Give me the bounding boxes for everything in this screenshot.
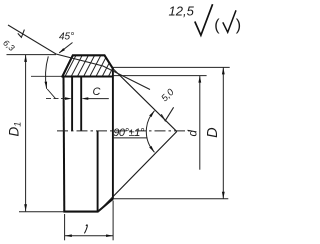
lower cone edge xyxy=(98,132,177,212)
inner vertical A (chamfer edge above axis) xyxy=(71,77,73,131)
svg-text:(: ( xyxy=(214,17,220,34)
dimension l: right arrowhead xyxy=(106,234,113,237)
inner vertical B (below axis) xyxy=(97,131,99,212)
body bottom edge xyxy=(63,211,98,213)
svg-text:6,3: 6,3 xyxy=(1,38,17,53)
svg-text:C: C xyxy=(93,86,101,98)
45 deg leader line xyxy=(59,43,72,53)
dimension D: bottom extension line xyxy=(113,198,228,200)
svg-text:90°±1°: 90°±1° xyxy=(113,127,145,139)
dimension D1: dimension line xyxy=(25,55,27,212)
angle label underline xyxy=(113,137,148,139)
dimension C: left arrow tail dashes xyxy=(46,98,65,100)
dimension C: right arrowhead xyxy=(81,97,88,100)
dimension d: label xyxy=(188,130,200,137)
svg-text:45°: 45° xyxy=(59,32,74,43)
hatching of head section xyxy=(58,54,126,78)
dimension D: top arrowhead xyxy=(222,67,225,74)
45 deg leader arrowhead xyxy=(59,48,65,53)
dimension l: left arrowhead xyxy=(65,234,72,237)
roughness tick on cone edge xyxy=(161,107,173,121)
body left edge xyxy=(63,77,66,212)
dimension d: extension line xyxy=(113,75,207,77)
general roughness check symbol xyxy=(195,4,213,35)
head base extension line (left, for 45 deg arc) xyxy=(31,75,62,77)
axis centerline (dash-dot) xyxy=(57,130,191,132)
apex arc lower arrowhead xyxy=(149,146,154,152)
chamfer extension diagonal (45 deg line) xyxy=(8,25,150,90)
dimension D1: bottom extension line xyxy=(19,211,63,213)
apex arc upper arrowhead xyxy=(149,111,154,117)
dimension D1: top arrowhead xyxy=(24,55,27,62)
apex angle arc (90 deg) xyxy=(146,111,154,153)
svg-text:D: D xyxy=(205,127,221,137)
svg-text:12,5: 12,5 xyxy=(169,4,195,19)
bracketed check: small check xyxy=(223,10,236,32)
dimension D1: label xyxy=(7,122,23,137)
dimension D: top extension line xyxy=(113,66,230,68)
dimension C: right tail xyxy=(88,98,109,100)
dimension l: label xyxy=(84,225,87,234)
dimension l: right extension line xyxy=(112,201,114,241)
bottom-right bevel (thick corner chamfer) xyxy=(98,199,113,211)
svg-text:d: d xyxy=(188,130,200,137)
dimension D1: bottom arrowhead xyxy=(24,204,27,211)
dimension C: left arrowhead xyxy=(65,97,72,100)
45 deg arc arrowhead xyxy=(45,82,48,89)
leader bend to C dashes xyxy=(47,89,55,99)
inner vertical A2 (hole edge above axis) xyxy=(80,77,82,131)
45 deg angle arc xyxy=(46,56,49,88)
dimension d: dimension line xyxy=(199,76,201,170)
roughness tick on chamfer line xyxy=(18,30,25,38)
svg-text:D1: D1 xyxy=(7,122,23,137)
dimension d: top arrowhead xyxy=(198,76,201,83)
dimension D: bottom arrowhead xyxy=(222,192,225,199)
dimension D: label xyxy=(205,127,221,137)
svg-text:): ) xyxy=(236,17,241,34)
svg-text:5,0: 5,0 xyxy=(159,86,177,104)
body right edge xyxy=(112,69,114,200)
dimension l: dimension line xyxy=(65,235,113,237)
dimension D: dimension line xyxy=(222,67,224,198)
upper cone edge (90 deg countersink) xyxy=(113,69,177,132)
head base line xyxy=(62,76,113,78)
dimension l: left extension line xyxy=(64,214,66,240)
chamfered head outline (trapezoid) xyxy=(62,55,113,76)
dimension D1: top extension line xyxy=(7,54,57,56)
